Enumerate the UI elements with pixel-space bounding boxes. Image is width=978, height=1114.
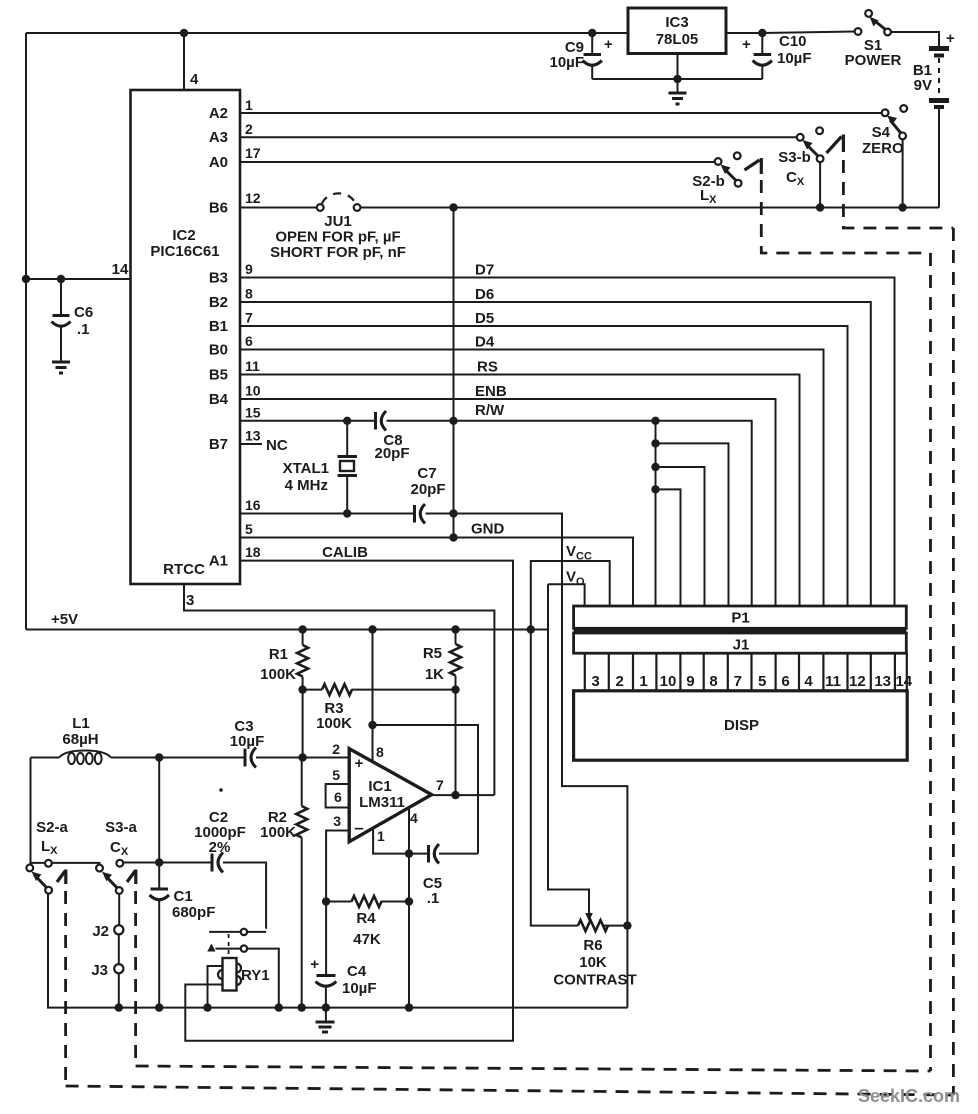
svg-text:–: – bbox=[354, 818, 363, 837]
svg-text:10µF: 10µF bbox=[550, 54, 585, 71]
node pin8 top bbox=[368, 625, 376, 633]
wire top rail left bbox=[26, 32, 592, 34]
svg-text:A3: A3 bbox=[209, 129, 228, 146]
wire A1 pin18 CALIB bbox=[185, 561, 513, 1041]
svg-text:10: 10 bbox=[245, 383, 261, 399]
svg-text:CONTRAST: CONTRAST bbox=[553, 972, 636, 989]
wire coil top-left to bus bbox=[208, 966, 223, 1008]
relay RY1 coil bbox=[223, 958, 237, 991]
svg-text:100K: 100K bbox=[260, 666, 296, 683]
svg-text:5: 5 bbox=[332, 767, 340, 783]
svg-text:POWER: POWER bbox=[845, 52, 902, 69]
node C5 tee bbox=[368, 721, 376, 729]
svg-text:R1: R1 bbox=[269, 646, 288, 663]
svg-text:S4: S4 bbox=[872, 124, 891, 141]
svg-text:18: 18 bbox=[245, 544, 261, 560]
svg-text:8: 8 bbox=[245, 286, 253, 302]
svg-text:9V: 9V bbox=[914, 77, 932, 94]
wire B1/D5 bbox=[240, 326, 848, 606]
pin5/6 strap bbox=[326, 784, 350, 808]
svg-text:12: 12 bbox=[849, 673, 866, 690]
wire B3/D7 bbox=[240, 278, 895, 607]
svg-text:GND: GND bbox=[471, 521, 505, 538]
wire C2 line bbox=[123, 862, 211, 864]
wire +5V rail bbox=[26, 629, 548, 631]
svg-text:S2-a: S2-a bbox=[36, 819, 68, 836]
node Vcc riser bbox=[527, 625, 535, 633]
wire B2/D6 bbox=[240, 302, 871, 606]
wire A2 pin1 to S4 bbox=[240, 112, 882, 114]
svg-text:R4: R4 bbox=[356, 910, 376, 927]
dashed link right outer vertical bbox=[952, 228, 955, 1095]
wire branch to S3-a bbox=[31, 863, 100, 865]
svg-text:B1: B1 bbox=[209, 318, 228, 335]
resistor R1 bbox=[302, 630, 304, 646]
svg-text:S3-b: S3-b bbox=[778, 149, 811, 166]
dashed link S3-a down bbox=[134, 891, 137, 1066]
svg-text:J3: J3 bbox=[91, 962, 108, 979]
ground IC3 bbox=[669, 93, 687, 104]
svg-text:PIC16C61: PIC16C61 bbox=[150, 243, 219, 260]
svg-text:14: 14 bbox=[895, 673, 912, 690]
wire S4 pivot down bbox=[902, 139, 904, 207]
dashed bottom outer bbox=[66, 1086, 954, 1095]
wire B7 NC stub bbox=[240, 443, 262, 445]
wire vertical x454 JU1 to GND line bbox=[453, 208, 455, 538]
ground C4 bbox=[316, 1022, 335, 1032]
bus junction dots bbox=[115, 1003, 123, 1011]
wire Vcc bbox=[531, 561, 610, 926]
svg-text:+: + bbox=[742, 36, 751, 53]
wire -input bbox=[326, 831, 349, 902]
svg-text:RS: RS bbox=[477, 359, 498, 376]
capacitor C4 bbox=[325, 902, 327, 975]
svg-text:A1: A1 bbox=[209, 553, 228, 570]
wire pin15 R/W bbox=[240, 420, 374, 422]
svg-text:J1: J1 bbox=[733, 637, 750, 654]
svg-text:B3: B3 bbox=[209, 270, 228, 287]
IC2 PIC16C61 box bbox=[131, 90, 241, 584]
svg-text:CALIB: CALIB bbox=[322, 544, 368, 561]
svg-text:68µH: 68µH bbox=[62, 731, 98, 748]
svg-text:A2: A2 bbox=[209, 105, 228, 122]
dashed link S2-b down bbox=[761, 180, 930, 253]
svg-text:4: 4 bbox=[410, 810, 418, 826]
resistor R3 bbox=[303, 689, 322, 691]
connector J1 box bbox=[574, 633, 907, 653]
svg-text:NC: NC bbox=[266, 437, 288, 454]
switch S3-b bbox=[797, 134, 804, 141]
node R1 top bbox=[298, 625, 306, 633]
wire B4/ENB bbox=[240, 399, 776, 606]
svg-text:2: 2 bbox=[245, 121, 253, 137]
svg-text:+5V: +5V bbox=[51, 611, 78, 628]
svg-text:20pF: 20pF bbox=[410, 481, 445, 498]
svg-text:3: 3 bbox=[591, 673, 599, 690]
svg-text:SHORT FOR pF, nF: SHORT FOR pF, nF bbox=[270, 244, 406, 261]
connector P1 box bbox=[574, 606, 907, 628]
battery B1 bbox=[929, 49, 949, 108]
svg-text:.1: .1 bbox=[427, 890, 440, 907]
relay RY1 actuator dash bbox=[228, 934, 230, 957]
svg-text:C10: C10 bbox=[779, 33, 807, 50]
wire A0 pin17 to S2-b bbox=[240, 161, 715, 163]
svg-text:8: 8 bbox=[376, 744, 384, 760]
svg-text:2: 2 bbox=[332, 741, 340, 757]
svg-text:.1: .1 bbox=[77, 321, 90, 338]
svg-text:16: 16 bbox=[245, 497, 261, 513]
wire S3-b pivot to line bbox=[819, 162, 821, 207]
svg-text:D6: D6 bbox=[475, 286, 494, 303]
svg-text:C4: C4 bbox=[347, 963, 367, 980]
svg-text:RY1: RY1 bbox=[241, 967, 270, 984]
svg-text:680pF: 680pF bbox=[172, 904, 215, 921]
capacitor C9 bbox=[591, 33, 593, 53]
svg-text:10: 10 bbox=[660, 673, 677, 690]
svg-text:9: 9 bbox=[245, 261, 253, 277]
jumper JU1 bbox=[317, 204, 324, 211]
svg-text:1K: 1K bbox=[425, 666, 444, 683]
resistor R2 bbox=[301, 758, 303, 807]
svg-text:5: 5 bbox=[758, 673, 766, 690]
node bus top R/W bbox=[651, 417, 659, 425]
switch S4 ZERO bbox=[882, 109, 889, 116]
svg-text:IC2: IC2 bbox=[172, 227, 195, 244]
svg-text:2%: 2% bbox=[209, 839, 231, 856]
svg-text:+: + bbox=[310, 956, 319, 973]
svg-text:SeekIC.com: SeekIC.com bbox=[858, 1086, 960, 1106]
svg-text:L1: L1 bbox=[72, 715, 90, 732]
IC3 regulator box bbox=[628, 8, 726, 54]
svg-text:B7: B7 bbox=[209, 436, 228, 453]
wire pin1 drop bbox=[373, 828, 409, 854]
wire Vo T bbox=[548, 584, 585, 606]
svg-text:1: 1 bbox=[377, 828, 385, 844]
svg-text:78L05: 78L05 bbox=[656, 31, 699, 48]
node C2/C1 junction bbox=[155, 858, 163, 866]
svg-text:D4: D4 bbox=[475, 334, 495, 351]
svg-text:14: 14 bbox=[112, 261, 129, 278]
node x454 GND bbox=[449, 533, 457, 541]
capacitor C7 bbox=[413, 505, 416, 523]
crystal XTAL1 bbox=[346, 421, 348, 455]
wire pin3 RTCC bbox=[184, 584, 494, 795]
svg-text:8: 8 bbox=[709, 673, 717, 690]
node R3 left bbox=[298, 685, 306, 693]
svg-text:7: 7 bbox=[734, 673, 742, 690]
svg-text:B6: B6 bbox=[209, 200, 228, 217]
svg-text:17: 17 bbox=[245, 145, 261, 161]
comb pin numbers bbox=[591, 673, 912, 690]
wire bus branch 3 bbox=[651, 485, 659, 493]
linkage S3-b hook bbox=[827, 137, 842, 154]
svg-text:7: 7 bbox=[245, 310, 253, 326]
wire S2-a pivot to bus bbox=[48, 894, 627, 1008]
svg-text:100K: 100K bbox=[260, 824, 296, 841]
wire output bbox=[432, 794, 495, 796]
switch S2-b bbox=[715, 158, 722, 165]
wire IC3 gnd stub bbox=[677, 54, 679, 93]
potentiometer R6 bbox=[578, 920, 608, 931]
inductor L1 bbox=[31, 757, 60, 759]
svg-text:10µF: 10µF bbox=[230, 733, 265, 750]
wire bus branch 1 bbox=[655, 421, 657, 606]
wire C5 top feed bbox=[373, 725, 479, 854]
display DISP box bbox=[574, 691, 908, 760]
svg-text:B4: B4 bbox=[209, 391, 229, 408]
jack J2 bbox=[118, 894, 120, 925]
wire C10 to S1 bbox=[762, 32, 855, 34]
svg-text:ZERO: ZERO bbox=[862, 140, 904, 157]
switch S1 POWER bbox=[855, 28, 862, 35]
svg-text:10K: 10K bbox=[579, 954, 607, 971]
wire S1 to battery bbox=[891, 32, 939, 47]
svg-text:4 MHz: 4 MHz bbox=[285, 477, 328, 494]
jack J3 bbox=[118, 934, 120, 964]
node C6 junction bbox=[57, 275, 65, 283]
svg-text:A0: A0 bbox=[209, 154, 228, 171]
capacitor C5 bbox=[409, 853, 428, 855]
capacitor C1 bbox=[158, 758, 160, 889]
dashed link right inner vertical bbox=[929, 253, 932, 1071]
svg-text:11: 11 bbox=[825, 673, 841, 690]
linkage S3-a hook bbox=[127, 871, 136, 883]
node xtal top bbox=[343, 417, 351, 425]
wire IC2 pin4 bbox=[183, 33, 185, 90]
wire bus branch 2 bbox=[651, 463, 659, 471]
node x454 R/W bbox=[449, 417, 457, 425]
svg-text:IC3: IC3 bbox=[665, 14, 688, 31]
wire B5/RS bbox=[240, 375, 800, 607]
capacitor C10 bbox=[761, 33, 763, 53]
wire L1 left down bbox=[30, 758, 32, 865]
node R4 right bbox=[405, 897, 413, 905]
node +input junction bbox=[298, 753, 306, 761]
svg-text:C6: C6 bbox=[74, 304, 93, 321]
node output junction bbox=[451, 791, 459, 799]
svg-text:D7: D7 bbox=[475, 262, 494, 279]
svg-text:6: 6 bbox=[334, 789, 342, 805]
svg-text:3: 3 bbox=[186, 592, 194, 609]
node R5 top bbox=[451, 625, 459, 633]
dashed link S3-b down bbox=[843, 160, 953, 228]
svg-text:XTAL1: XTAL1 bbox=[283, 460, 329, 477]
wire B0/D4 bbox=[240, 350, 824, 607]
svg-text:R6: R6 bbox=[583, 937, 602, 954]
svg-text:P1: P1 bbox=[731, 610, 749, 627]
node C10 junction bbox=[758, 29, 766, 37]
node pin14/left-rail junction bbox=[22, 275, 30, 283]
resistor R4 bbox=[326, 901, 351, 903]
wire A3 pin2 to S3-b bbox=[240, 136, 797, 138]
linkage S2-a hook bbox=[57, 871, 66, 883]
svg-text:D5: D5 bbox=[475, 310, 494, 327]
svg-text:B5: B5 bbox=[209, 367, 228, 384]
svg-text:9: 9 bbox=[686, 673, 694, 690]
node xtal bottom bbox=[343, 509, 351, 517]
node top-left junction bbox=[180, 29, 188, 37]
node C9 junction bbox=[588, 29, 596, 37]
wire C9 C10 ground bottom bbox=[592, 78, 762, 80]
ground C6 bbox=[52, 362, 70, 373]
svg-text:R5: R5 bbox=[423, 645, 442, 662]
svg-text:47K: 47K bbox=[353, 931, 381, 948]
dashed link S2-a down bbox=[64, 891, 67, 1086]
svg-text:13: 13 bbox=[874, 673, 891, 690]
resistor R5 bbox=[455, 630, 457, 645]
wire C9 to IC3 bbox=[592, 32, 628, 34]
svg-text:ENB: ENB bbox=[475, 383, 507, 400]
node R4 left bbox=[322, 897, 330, 905]
capacitor C3 bbox=[244, 749, 247, 767]
relay RY1 contacts bbox=[209, 931, 241, 933]
svg-text:15: 15 bbox=[245, 404, 261, 420]
node x454 pin16 bbox=[449, 509, 457, 517]
wire pin14 bbox=[26, 278, 131, 280]
wire left rail bbox=[25, 33, 27, 630]
svg-text:+: + bbox=[355, 755, 364, 772]
svg-text:LM311: LM311 bbox=[359, 794, 405, 811]
svg-text:5: 5 bbox=[245, 521, 253, 537]
wire pin4 drop bbox=[408, 808, 410, 854]
comb pin separators bbox=[585, 653, 907, 691]
svg-text:12: 12 bbox=[245, 190, 261, 206]
divider thick line bbox=[574, 629, 907, 633]
capacitor C8 bbox=[374, 412, 377, 430]
wire pin8 riser bbox=[372, 630, 374, 763]
wire battery to B6 line bbox=[938, 109, 940, 208]
node JU1 line x454 bbox=[449, 203, 457, 211]
svg-text:6: 6 bbox=[245, 333, 253, 349]
svg-text:C1: C1 bbox=[174, 888, 193, 905]
capacitor C2 bbox=[211, 854, 214, 872]
linkage S2-b hook bbox=[745, 160, 760, 170]
svg-text:OPEN FOR pF, µF: OPEN FOR pF, µF bbox=[275, 229, 400, 246]
switch S2-a bbox=[26, 865, 33, 872]
wire L1 to C3 junction bbox=[111, 757, 244, 759]
svg-text:3: 3 bbox=[333, 813, 341, 829]
op-amp IC1 LM311 bbox=[349, 749, 431, 842]
dashed bottom inner bbox=[136, 1066, 931, 1071]
svg-text:13: 13 bbox=[245, 428, 261, 444]
node L1/C1 junction bbox=[155, 753, 163, 761]
svg-text:1: 1 bbox=[245, 97, 253, 113]
svg-text:J2: J2 bbox=[92, 923, 109, 940]
svg-text:11: 11 bbox=[245, 358, 260, 374]
wire pin5 GND bbox=[240, 538, 633, 607]
wire B6 pin12 to JU1 bbox=[240, 207, 317, 209]
svg-text:4: 4 bbox=[190, 71, 199, 88]
capacitor C6 bbox=[60, 279, 62, 314]
svg-text:RTCC: RTCC bbox=[163, 561, 205, 578]
svg-text:IC1: IC1 bbox=[368, 778, 391, 795]
svg-text:C7: C7 bbox=[417, 465, 436, 482]
node R6 right bbox=[623, 921, 631, 929]
svg-text:+: + bbox=[946, 30, 955, 47]
svg-text:+: + bbox=[604, 36, 613, 53]
svg-text:S3-a: S3-a bbox=[105, 819, 137, 836]
svg-text:B2: B2 bbox=[209, 294, 228, 311]
wire pin1/4 to bus bbox=[408, 854, 410, 1008]
svg-text:4: 4 bbox=[804, 673, 813, 690]
svg-text:100K: 100K bbox=[316, 715, 352, 732]
switch S3-a bbox=[96, 865, 103, 872]
svg-text:20pF: 20pF bbox=[374, 445, 409, 462]
node R3/R5 junction bbox=[451, 685, 459, 693]
svg-text:6: 6 bbox=[781, 673, 789, 690]
svg-text:DISP: DISP bbox=[724, 717, 759, 734]
wire R6 right to bus bbox=[626, 926, 628, 1008]
svg-text:10µF: 10µF bbox=[777, 50, 812, 67]
svg-text:B0: B0 bbox=[209, 342, 228, 359]
svg-text:10µF: 10µF bbox=[342, 980, 377, 997]
svg-text:7: 7 bbox=[436, 777, 444, 793]
svg-text:2: 2 bbox=[616, 673, 624, 690]
node IC3 gnd junction bbox=[673, 75, 681, 83]
wire IC3 out to C10 bbox=[726, 32, 762, 34]
wire pin16 bbox=[240, 513, 414, 515]
svg-text:JU1: JU1 bbox=[324, 213, 352, 230]
svg-text:R/W: R/W bbox=[475, 402, 505, 419]
wire JU1 to battery bottom bbox=[361, 207, 940, 209]
node pin1/4 bbox=[405, 849, 413, 857]
svg-text:1: 1 bbox=[639, 673, 647, 690]
